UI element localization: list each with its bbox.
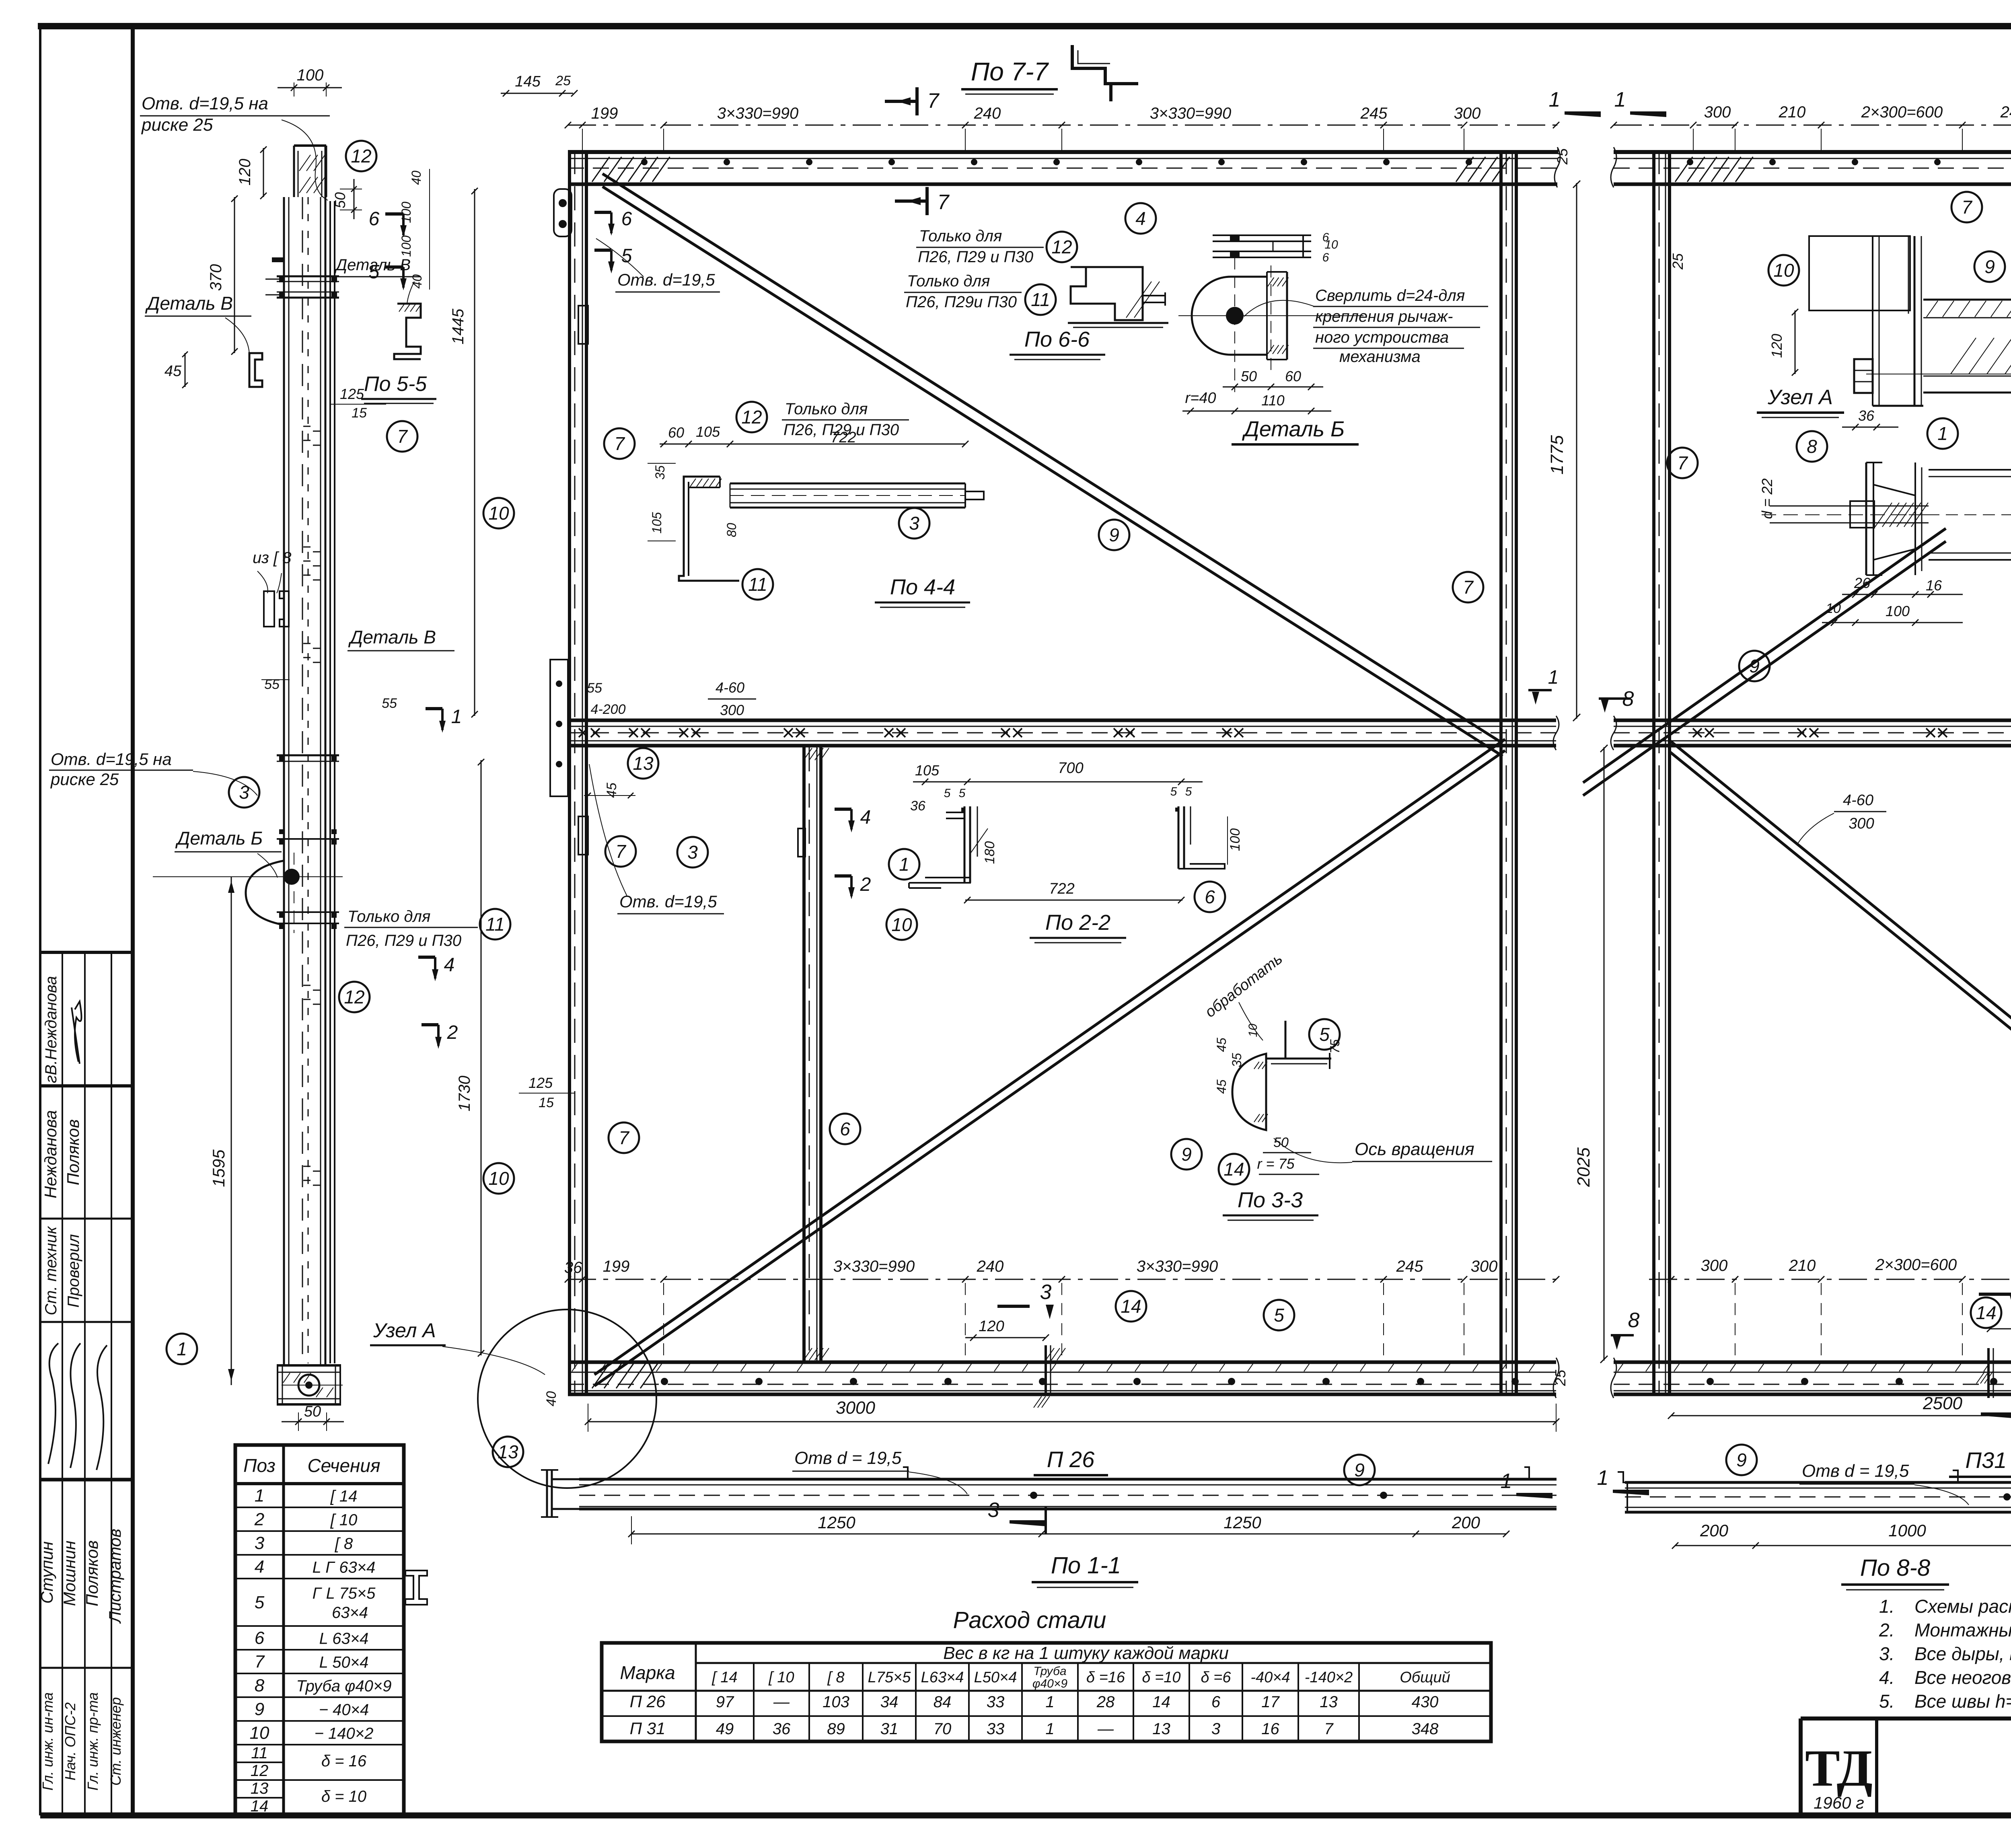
z profile symbol	[1072, 45, 1138, 84]
svg-text:r=40: r=40	[1185, 390, 1216, 407]
svg-text:40: 40	[409, 171, 424, 185]
svg-text:145: 145	[515, 73, 541, 90]
svg-text:14: 14	[251, 1797, 269, 1815]
svg-text:2×300=600: 2×300=600	[1861, 103, 1943, 121]
detail B fork top view	[1213, 234, 1311, 236]
corner hatches P26	[592, 157, 609, 182]
svg-text:6: 6	[1322, 251, 1329, 264]
svg-text:60: 60	[1285, 368, 1301, 384]
svg-text:ТД: ТД	[1805, 1739, 1873, 1797]
panel P26 bottom chord	[568, 1361, 1556, 1364]
top dimension line right	[1614, 125, 2011, 126]
dim 145 25 top	[501, 93, 573, 94]
svg-text:3: 3	[239, 782, 249, 803]
po 3-3 angle	[1285, 1021, 1287, 1059]
svg-text:300: 300	[1701, 1257, 1728, 1274]
table Poz/Secheniya	[235, 1445, 404, 1815]
po 1-1 mid angle stub	[903, 1467, 919, 1479]
balloon 7	[1951, 192, 1982, 222]
svg-text:50: 50	[304, 1403, 321, 1420]
balloon 9	[1344, 1455, 1375, 1485]
balloon 3	[899, 508, 929, 539]
dim 100 col top	[294, 82, 294, 97]
balloon 14	[1219, 1154, 1249, 1184]
po 1-1 dims	[631, 1533, 1506, 1535]
svg-text:5: 5	[255, 1593, 265, 1612]
balloon 3	[229, 777, 259, 808]
detail V bracket on column	[249, 353, 262, 387]
section mark 5 left	[385, 265, 403, 269]
po 8-8 beam	[1625, 1481, 2011, 1484]
element 14 plate crossing bottom bar right	[1987, 1348, 1990, 1398]
svg-text:84: 84	[934, 1693, 952, 1711]
svg-text:П26, П29 и П30: П26, П29 и П30	[346, 932, 461, 950]
left column top connection plates	[277, 275, 339, 278]
signature mark	[75, 1001, 82, 1062]
svg-text:δ =10: δ =10	[1142, 1669, 1180, 1686]
svg-text:Сечения: Сечения	[307, 1455, 380, 1476]
section mark 7	[885, 100, 917, 103]
svg-text:348: 348	[1412, 1720, 1439, 1738]
svg-text:7: 7	[1463, 577, 1474, 598]
svg-text:Отв. d=19,5: Отв. d=19,5	[619, 892, 717, 911]
svg-text:Отв d = 19,5: Отв d = 19,5	[794, 1448, 902, 1468]
svg-text:7: 7	[927, 89, 940, 113]
svg-text:240: 240	[2000, 103, 2011, 121]
title block frame	[1801, 1716, 2011, 1721]
svg-text:3: 3	[909, 513, 919, 534]
balloon 7	[609, 1122, 639, 1153]
svg-text:12: 12	[351, 146, 371, 167]
svg-text:105: 105	[650, 512, 664, 534]
po 1-1 left end I piece	[546, 1470, 548, 1517]
svg-text:370: 370	[207, 264, 225, 291]
svg-text:6: 6	[840, 1118, 850, 1139]
panel P31 upper diagonal 9 segment b	[1583, 528, 1946, 783]
svg-text:L63×4: L63×4	[921, 1669, 964, 1686]
svg-text:− 140×2: − 140×2	[315, 1725, 374, 1743]
svg-text:-40×4: -40×4	[1250, 1669, 1290, 1686]
svg-text:7: 7	[615, 841, 626, 862]
svg-text:4.: 4.	[1879, 1667, 1894, 1688]
weld marks middle bar left	[579, 728, 588, 737]
svg-text:Нач. ОПС-2: Нач. ОПС-2	[62, 1702, 78, 1780]
svg-text:Деталь В: Деталь В	[145, 293, 233, 314]
svg-text:45: 45	[1214, 1079, 1229, 1094]
svg-text:3: 3	[687, 842, 698, 863]
svg-text:40: 40	[544, 1391, 559, 1406]
uzel A: horizontal beam	[1923, 299, 2011, 301]
svg-text:[ 14: [ 14	[330, 1488, 358, 1505]
svg-text:13: 13	[633, 753, 654, 774]
svg-text:12: 12	[1051, 236, 1072, 257]
svg-text:Ст. техник: Ст. техник	[42, 1225, 60, 1315]
svg-text:45: 45	[164, 363, 182, 380]
svg-text:9: 9	[1736, 1449, 1747, 1470]
balloon 7	[1453, 572, 1483, 602]
svg-text:Ст. инженер: Ст. инженер	[107, 1697, 124, 1786]
svg-text:Ступин: Ступин	[37, 1542, 56, 1604]
svg-text:240: 240	[974, 105, 1001, 122]
small plate below junction	[578, 816, 588, 855]
dim 50 col bottom	[298, 1412, 299, 1431]
balloon 6	[1195, 882, 1225, 912]
svg-text:6: 6	[1205, 886, 1215, 907]
extension lines bottom	[582, 1283, 583, 1361]
detail B clamp on column	[246, 861, 284, 925]
svg-text:Деталь В: Деталь В	[348, 627, 436, 648]
svg-text:210: 210	[1789, 1257, 1816, 1274]
svg-text:П 26: П 26	[1047, 1447, 1095, 1472]
svg-text:50: 50	[332, 192, 348, 208]
svg-text:По 5-5: По 5-5	[364, 372, 427, 396]
svg-text:5: 5	[944, 787, 951, 800]
corner hatches P31	[1675, 157, 1692, 182]
svg-text:Отв. d=19,5 на: Отв. d=19,5 на	[142, 94, 268, 113]
svg-text:16: 16	[1261, 1720, 1279, 1738]
balloon 8	[1797, 431, 1827, 462]
svg-text:35: 35	[1230, 1053, 1244, 1067]
balloon 5	[1309, 1019, 1340, 1050]
dim 1775 left	[1576, 183, 1577, 719]
balloon 12	[339, 982, 370, 1012]
section mark 7 lower	[895, 199, 927, 203]
svg-text:13: 13	[1320, 1693, 1338, 1711]
svg-text:14: 14	[1121, 1296, 1141, 1317]
small stub left top	[272, 257, 284, 262]
svg-text:Схемы расположения конструк: Схемы расположения конструкций показаны …	[1914, 1596, 2011, 1617]
svg-text:ного устроиства: ного устроиства	[1315, 329, 1449, 346]
uzel A: bolt left	[1854, 359, 1873, 393]
svg-text:13: 13	[251, 1780, 269, 1797]
po 3-3 curved piece	[1232, 1054, 1266, 1130]
svg-text:300: 300	[1454, 105, 1481, 122]
svg-text:5: 5	[1274, 1305, 1284, 1326]
uzel A: bolt rod	[1770, 506, 1929, 507]
middle vertical small plates	[798, 828, 805, 857]
uzel A: vertical bracket	[1872, 236, 1873, 406]
svg-text:180: 180	[982, 841, 997, 864]
column foot	[277, 1364, 341, 1367]
column weld tick clusters	[303, 547, 310, 548]
svg-text:75: 75	[1328, 1039, 1342, 1054]
svg-text:6: 6	[1211, 1693, 1221, 1711]
svg-text:4: 4	[860, 807, 871, 828]
svg-text:Гл. инж. ин-та: Гл. инж. ин-та	[39, 1692, 56, 1790]
svg-text:δ =6: δ =6	[1201, 1669, 1232, 1686]
balloon 11	[1025, 284, 1056, 315]
uzel A circle left	[478, 1309, 656, 1488]
svg-text:1: 1	[899, 854, 909, 875]
svg-text:12: 12	[251, 1762, 269, 1780]
P26 bottom bar break	[1553, 1358, 1559, 1398]
po 8-8 left end	[1618, 1472, 1635, 1482]
sheet outer frame	[39, 26, 41, 1815]
svg-text:3.: 3.	[1879, 1643, 1894, 1664]
svg-text:4-200: 4-200	[591, 702, 626, 717]
panel P31 top chord	[1614, 150, 2011, 154]
svg-text:9: 9	[255, 1700, 264, 1719]
svg-text:7: 7	[938, 191, 950, 214]
svg-text:25: 25	[1552, 1369, 1569, 1386]
svg-text:Только для: Только для	[919, 227, 1002, 245]
balloon 7	[605, 836, 636, 867]
dim 1595	[231, 877, 232, 1385]
svg-text:—: —	[773, 1693, 790, 1711]
svg-text:7: 7	[614, 433, 625, 454]
detail Po 6-6 bracket	[1071, 267, 1143, 320]
dim 45 col	[185, 353, 186, 387]
svg-text:4: 4	[1135, 208, 1146, 229]
svg-text:[ 10: [ 10	[330, 1511, 358, 1529]
balloon 13	[493, 1437, 523, 1467]
svg-text:12: 12	[741, 407, 762, 428]
svg-text:300: 300	[720, 702, 744, 718]
svg-text:28: 28	[1096, 1693, 1115, 1711]
dim 120 col	[263, 148, 264, 197]
svg-text:125: 125	[340, 386, 364, 402]
svg-text:50: 50	[1241, 368, 1257, 384]
svg-text:4: 4	[444, 954, 455, 976]
svg-text:П 31: П 31	[630, 1719, 666, 1738]
svg-text:35: 35	[653, 465, 667, 480]
svg-text:3×330=990: 3×330=990	[1150, 105, 1231, 122]
svg-text:Расход стали: Расход стали	[953, 1607, 1106, 1633]
balloon 10	[1768, 255, 1799, 286]
svg-text:722: 722	[1049, 880, 1074, 897]
svg-text:− 40×4: − 40×4	[319, 1701, 369, 1719]
svg-text:10: 10	[488, 1168, 509, 1189]
svg-text:4: 4	[255, 1557, 264, 1577]
svg-text:2025: 2025	[1574, 1147, 1594, 1187]
svg-text:55: 55	[382, 696, 397, 711]
svg-text:По 4-4: По 4-4	[890, 575, 955, 599]
svg-text:Ось вращения: Ось вращения	[1355, 1139, 1474, 1159]
svg-text:26: 26	[1854, 575, 1871, 591]
balloon 11	[480, 909, 510, 939]
svg-text:По 2-2: По 2-2	[1045, 911, 1110, 935]
svg-text:210: 210	[1779, 103, 1806, 121]
svg-text:100: 100	[399, 235, 413, 257]
svg-text:25: 25	[1670, 253, 1686, 270]
svg-text:89: 89	[827, 1720, 845, 1738]
svg-text:14: 14	[1152, 1693, 1170, 1711]
extension lines top	[582, 129, 583, 150]
balloon 13	[628, 748, 658, 779]
panel P31 middle chord	[1614, 719, 2011, 722]
balloon 14	[1971, 1297, 2001, 1328]
P26 mid bar break	[1553, 716, 1559, 750]
svg-text:200: 200	[1700, 1521, 1729, 1540]
svg-text:105: 105	[696, 423, 720, 440]
svg-text:13: 13	[1152, 1720, 1170, 1738]
section mark 6 left	[385, 212, 403, 216]
svg-text:Деталь Б: Деталь Б	[1242, 417, 1345, 441]
svg-text:11: 11	[748, 574, 767, 595]
svg-text:55: 55	[264, 677, 280, 692]
svg-text:7: 7	[1677, 452, 1688, 473]
svg-text:63×4: 63×4	[332, 1604, 368, 1622]
svg-text:d = 22: d = 22	[1759, 478, 1775, 519]
svg-text:1730: 1730	[456, 1076, 473, 1112]
svg-text:Труба: Труба	[1033, 1665, 1066, 1678]
balloon 1	[167, 1334, 197, 1364]
svg-text:6: 6	[621, 208, 632, 230]
svg-text:10: 10	[1324, 238, 1338, 251]
section mark 6 panel	[594, 211, 611, 214]
svg-text:8: 8	[1807, 436, 1817, 457]
svg-text:36: 36	[910, 798, 925, 814]
svg-text:5.: 5.	[1879, 1691, 1894, 1712]
svg-text:1250: 1250	[1223, 1513, 1261, 1532]
svg-text:L Γ 63×4: L Γ 63×4	[313, 1559, 376, 1577]
po 1-1 beam	[579, 1478, 1557, 1481]
svg-text:П 26: П 26	[630, 1692, 666, 1711]
svg-text:r = 75: r = 75	[1257, 1155, 1295, 1172]
svg-text:120: 120	[979, 1318, 1004, 1335]
gusset plate with slot	[554, 189, 572, 236]
svg-text:3×330=990: 3×330=990	[1137, 1258, 1218, 1275]
po 1-1 right end angle	[1524, 1467, 1540, 1479]
svg-text:Сверлить d=24-для: Сверлить d=24-для	[1315, 287, 1465, 304]
balloon 4	[1125, 203, 1156, 234]
svg-text:крепления рычаж-: крепления рычаж-	[1315, 308, 1453, 325]
svg-text:Все швы h=4.: Все швы h=4.	[1914, 1691, 2011, 1712]
svg-text:3: 3	[255, 1533, 265, 1553]
svg-text:П31 ; П32 (обратна П31): П31 ; П32 (обратна П31)	[1965, 1447, 2011, 1473]
balloon 6	[830, 1114, 860, 1144]
dim 50 col top	[340, 189, 362, 189]
svg-text:3×330=990: 3×330=990	[717, 105, 798, 122]
bottom dimension line right	[1649, 1279, 2011, 1280]
left title strip table	[40, 951, 133, 954]
balloon 12	[1047, 232, 1077, 262]
svg-text:97: 97	[716, 1693, 734, 1711]
svg-text:36: 36	[1858, 407, 1875, 424]
svg-text:103: 103	[822, 1693, 849, 1711]
svg-text:11: 11	[251, 1744, 268, 1762]
svg-text:δ = 10: δ = 10	[321, 1788, 366, 1805]
svg-text:Γ L 75×5: Γ L 75×5	[313, 1585, 376, 1602]
balloon 9	[1099, 520, 1129, 550]
svg-text:430: 430	[1412, 1693, 1439, 1711]
svg-text:По 1-1: По 1-1	[1051, 1552, 1121, 1579]
svg-text:9: 9	[1354, 1459, 1365, 1480]
svg-text:7: 7	[397, 426, 408, 447]
svg-text:700: 700	[1058, 760, 1083, 777]
svg-text:10: 10	[488, 503, 509, 524]
section mark 2 left member	[422, 1023, 438, 1026]
svg-text:45: 45	[1214, 1038, 1229, 1052]
svg-text:1: 1	[255, 1486, 264, 1506]
svg-text:-140×2: -140×2	[1305, 1669, 1353, 1686]
svg-text:Поз: Поз	[243, 1455, 276, 1476]
po 2-2 right piece	[1178, 806, 1180, 869]
balloon 7	[387, 421, 417, 452]
svg-text:36: 36	[773, 1720, 791, 1738]
po 8-8 mid angle stub	[1953, 1470, 1969, 1482]
balloon 9	[1171, 1139, 1202, 1170]
svg-text:100: 100	[297, 66, 324, 84]
svg-text:L 50×4: L 50×4	[319, 1654, 369, 1671]
balloon 7	[1667, 448, 1698, 478]
svg-text:Листратов: Листратов	[105, 1529, 124, 1624]
top dimension line left	[568, 125, 1557, 126]
svg-text:8: 8	[1628, 1309, 1640, 1332]
svg-text:199: 199	[591, 105, 618, 122]
svg-text:25: 25	[1554, 148, 1571, 165]
section mark 4 po22	[835, 808, 851, 811]
svg-text:По 3-3: По 3-3	[1238, 1188, 1303, 1212]
svg-text:2×300=600: 2×300=600	[1875, 1256, 1957, 1274]
svg-text:5: 5	[959, 787, 966, 800]
svg-text:Проверил: Проверил	[65, 1234, 82, 1308]
svg-text:55: 55	[587, 680, 602, 696]
svg-text:125: 125	[528, 1075, 553, 1091]
svg-text:14: 14	[1223, 1159, 1244, 1180]
svg-text:1: 1	[1045, 1720, 1054, 1738]
svg-text:3: 3	[1211, 1720, 1220, 1738]
balloon 1	[1927, 418, 1958, 449]
svg-text:По 8-8: По 8-8	[1860, 1555, 1930, 1581]
panel P26 middle chord	[568, 719, 1556, 722]
svg-text:8: 8	[255, 1676, 265, 1696]
weld marks middle bar right	[1693, 728, 1702, 737]
svg-text:Общий: Общий	[1400, 1669, 1450, 1686]
svg-text:1: 1	[1548, 667, 1559, 688]
dim 370 col	[234, 197, 235, 353]
svg-text:риске 25: риске 25	[141, 115, 213, 135]
svg-text:[ 10: [ 10	[768, 1669, 794, 1686]
balloon 14	[1116, 1291, 1146, 1322]
svg-text:3×330=990: 3×330=990	[833, 1258, 915, 1275]
svg-text:2: 2	[254, 1510, 264, 1529]
balloon 10	[483, 1163, 514, 1194]
svg-text:120: 120	[236, 159, 254, 186]
balloon 9	[1974, 251, 2005, 282]
4-200 left panel	[571, 701, 585, 721]
P31 bar breaks	[1611, 147, 1616, 187]
svg-text:25: 25	[555, 73, 571, 88]
svg-text:1: 1	[1501, 1470, 1512, 1493]
svg-text:33: 33	[987, 1720, 1005, 1738]
panel P26 right upright member	[1499, 150, 1503, 1396]
svg-text:7: 7	[1962, 197, 1972, 218]
section mark 4 left member	[418, 956, 435, 959]
svg-text:300: 300	[1849, 815, 1874, 832]
table Rashod stali	[602, 1643, 1491, 1741]
svg-text:δ =16: δ =16	[1086, 1669, 1125, 1686]
left column main body	[283, 197, 285, 1365]
svg-text:15: 15	[352, 405, 367, 421]
svg-text:10: 10	[250, 1723, 269, 1743]
svg-text:10: 10	[1826, 601, 1841, 616]
mid vertical top hatch	[804, 748, 812, 760]
svg-text:Только для: Только для	[907, 272, 990, 290]
dim 3000	[588, 1421, 1556, 1422]
svg-text:L50×4: L50×4	[974, 1669, 1017, 1686]
svg-text:11: 11	[485, 914, 505, 935]
balloon 10	[886, 909, 917, 940]
svg-text:δ = 16: δ = 16	[321, 1752, 367, 1770]
svg-text:1445: 1445	[449, 308, 467, 345]
svg-text:7: 7	[1324, 1720, 1334, 1738]
uzel A: lower-left assembly	[1865, 463, 1867, 575]
svg-text:4-60: 4-60	[716, 679, 744, 696]
svg-text:Монтажные узлы показаны на: Монтажные узлы показаны на листах	[1914, 1620, 2011, 1640]
dim 2500	[1671, 1415, 2011, 1416]
svg-text:L75×5: L75×5	[868, 1669, 911, 1686]
